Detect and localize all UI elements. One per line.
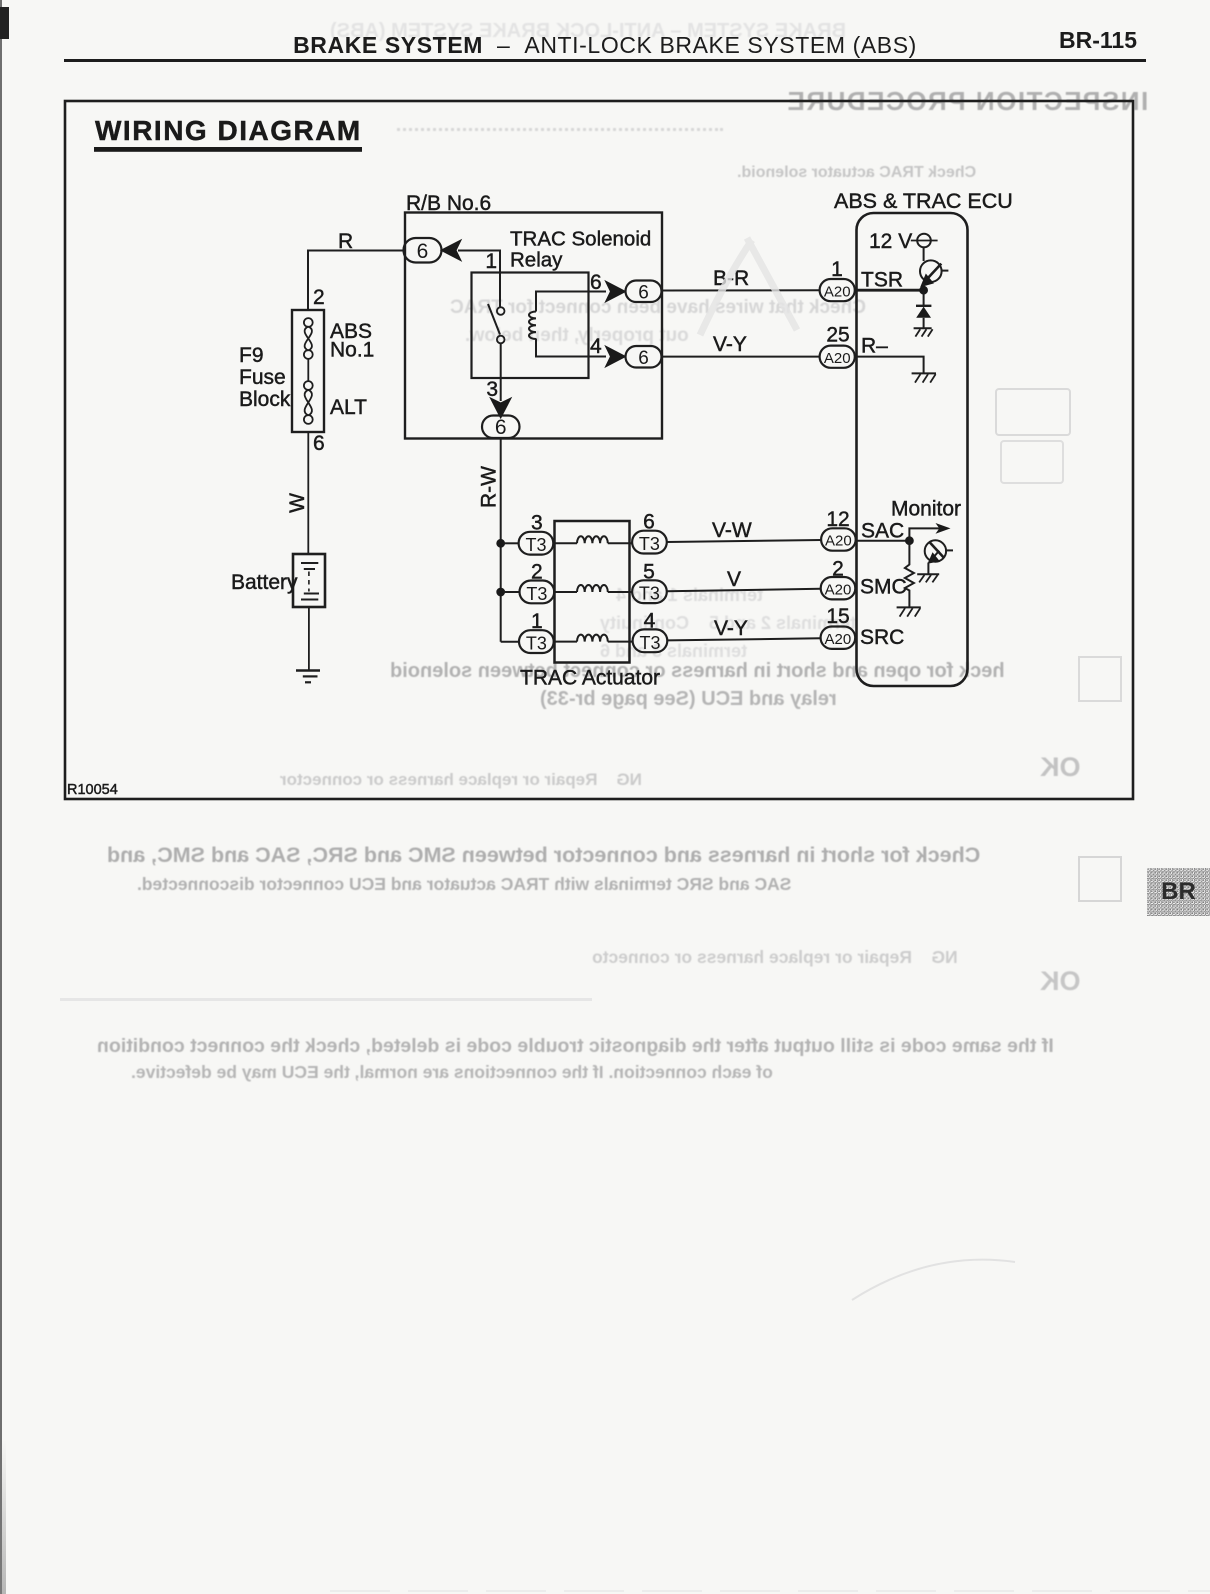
- wire stub row1: [503, 542, 519, 544]
- svg-text:V-W: V-W: [712, 519, 752, 542]
- svg-text:A20: A20: [825, 631, 852, 648]
- svg-text:A20: A20: [824, 350, 851, 367]
- connector T3 left row1: [519, 532, 554, 555]
- arrow to connector 6 lower right: [607, 347, 625, 366]
- svg-text:6: 6: [590, 271, 602, 294]
- label TSR: [861, 269, 903, 292]
- svg-text:6: 6: [638, 283, 649, 304]
- pin 15 label: [826, 605, 849, 628]
- svg-text:Monitor: Monitor: [891, 498, 961, 521]
- ECU box: [857, 213, 968, 686]
- arrow into connector 6: [442, 241, 460, 260]
- ground (battery): [296, 671, 320, 683]
- label R-: [861, 335, 888, 358]
- svg-text:6: 6: [417, 240, 429, 263]
- title WIRING DIAGRAM: [95, 115, 362, 151]
- label TRAC Actuator: [520, 667, 660, 690]
- relay inner box: [472, 273, 589, 379]
- diode D1: [916, 290, 931, 327]
- transistor Q1 emitter arrow: [922, 275, 932, 285]
- label Battery: [231, 571, 298, 594]
- connector T3 left row2: [520, 581, 555, 604]
- svg-text:SRC: SRC: [860, 626, 904, 649]
- svg-text:T3: T3: [639, 534, 660, 554]
- transistor Q2 emitter arrow: [929, 554, 938, 562]
- svg-text:6: 6: [643, 511, 655, 534]
- svg-text:V-Y: V-Y: [714, 617, 748, 640]
- connector T3 right row3: [633, 629, 668, 652]
- solenoid coil row2: [554, 585, 632, 592]
- svg-text:2: 2: [313, 286, 325, 309]
- fuse ALT: [304, 381, 313, 424]
- wire V-W row1: [667, 540, 821, 542]
- pin 2 label (fuse block): [313, 286, 325, 309]
- pin 4 label: [644, 610, 656, 633]
- svg-text:25: 25: [826, 324, 849, 347]
- ground (R-): [912, 373, 936, 382]
- transistor Q2: [925, 540, 953, 561]
- wire SAC internal: [857, 540, 910, 542]
- label SRC: [860, 626, 904, 649]
- connector A20 row2: [821, 577, 856, 599]
- TRAC actuator box: [555, 521, 630, 663]
- svg-text:R-W: R-W: [478, 466, 501, 508]
- svg-text:V: V: [727, 568, 741, 591]
- TRAC Solenoid Relay label: [510, 228, 651, 272]
- resistor R1: [905, 541, 914, 607]
- pin 6 label (fuse block): [313, 432, 325, 455]
- wire V row2: [667, 589, 821, 592]
- svg-text:TRAC Actuator: TRAC Actuator: [520, 667, 660, 690]
- connector A20 row3: [821, 627, 856, 649]
- svg-text:1: 1: [485, 250, 497, 273]
- ground (resistor): [897, 607, 921, 616]
- svg-text:T3: T3: [526, 584, 547, 604]
- pin 6 label: [643, 511, 655, 534]
- wire TSR: [855, 289, 924, 292]
- faint scratch mark: [852, 1260, 1015, 1300]
- connector A20 TSR: [820, 279, 855, 301]
- svg-text:ABS & TRAC ECU: ABS & TRAC ECU: [834, 189, 1013, 213]
- svg-text:WIRING DIAGRAM: WIRING DIAGRAM: [95, 115, 362, 146]
- svg-text:No.1: No.1: [330, 339, 374, 362]
- wire corner row3: [501, 641, 519, 643]
- pin 12 label: [826, 508, 849, 531]
- figure number R10054: [67, 782, 118, 798]
- svg-text:12 V: 12 V: [869, 230, 912, 253]
- connector A20 R-: [820, 346, 855, 368]
- pin 2 label: [531, 560, 543, 583]
- label V: [727, 568, 741, 591]
- transistor Q1: [920, 260, 948, 282]
- fuse ABS No.1: [304, 318, 313, 359]
- svg-text:Block: Block: [239, 388, 291, 411]
- svg-text:Battery: Battery: [231, 571, 298, 594]
- pin 6 label (relay): [590, 271, 602, 294]
- diagram frame: [65, 101, 1133, 799]
- connector T3 right row1: [632, 531, 667, 554]
- svg-text:R10054: R10054: [67, 782, 118, 798]
- svg-text:6: 6: [638, 348, 649, 369]
- monitor arrow: [909, 523, 950, 541]
- scan edge line: [0, 0, 2, 1594]
- label SMC: [860, 576, 907, 599]
- label V-Y (upper): [713, 333, 747, 356]
- wire R- to ground: [855, 357, 924, 373]
- wire: connector 6 to relay pin 1: [458, 251, 500, 274]
- svg-text:Relay: Relay: [510, 249, 563, 272]
- svg-text:SMC: SMC: [860, 576, 907, 599]
- wire Q2 emitter to ground: [927, 563, 929, 574]
- power terminal circle: [911, 234, 938, 248]
- page header: [0, 32, 1210, 59]
- svg-text:Fuse: Fuse: [239, 366, 286, 389]
- connector A20 row1: [821, 528, 856, 550]
- wire relay pin3 down: [500, 378, 502, 401]
- svg-text:6: 6: [313, 432, 325, 455]
- wire R: fuse block to relay block: [308, 251, 404, 311]
- bottom scan edge: [330, 1590, 1210, 1592]
- label ABS & TRAC ECU: [834, 189, 1013, 213]
- svg-text:F9: F9: [239, 344, 264, 367]
- wire battery to ground: [308, 607, 310, 671]
- svg-text:15: 15: [826, 605, 849, 628]
- ghost bleed-through layer: [330, 20, 846, 43]
- svg-text:W: W: [286, 493, 309, 513]
- label ALT: [330, 396, 367, 419]
- faint bleed mark: [700, 238, 797, 335]
- label B-R: [713, 267, 749, 290]
- wire stub row2: [503, 591, 520, 593]
- relay coil: [529, 292, 606, 357]
- wire B-R: [662, 289, 820, 291]
- svg-text:2: 2: [531, 560, 543, 583]
- ground (diode): [914, 328, 933, 336]
- wire W: fuse block to battery: [307, 432, 309, 554]
- svg-text:3: 3: [531, 512, 543, 535]
- label SAC: [861, 520, 904, 543]
- label ABS No.1: [330, 320, 374, 362]
- label 12 V: [869, 230, 912, 253]
- arrow to connector 6 upper right: [607, 282, 625, 301]
- connector 6 (relay block left): [404, 238, 442, 263]
- solenoid coil row3: [554, 635, 633, 642]
- node junction TSR: [920, 287, 927, 294]
- label V-Y: [714, 617, 748, 640]
- svg-text:4: 4: [590, 335, 602, 358]
- BR chapter tab: [1147, 868, 1210, 916]
- wire emitter to junction: [923, 284, 925, 291]
- label Monitor: [891, 498, 961, 521]
- label R-W (rotated): [478, 466, 501, 508]
- label V-W: [712, 519, 752, 542]
- arrow down to connector 6 bottom: [491, 399, 510, 417]
- svg-text:A20: A20: [825, 533, 852, 550]
- wire V-Y row3: [667, 638, 820, 640]
- node junction row2: [497, 589, 504, 596]
- svg-text:TRAC Solenoid: TRAC Solenoid: [510, 228, 651, 251]
- label R/B No.6: [406, 192, 491, 215]
- pin 4 label (relay): [590, 335, 602, 358]
- svg-text:ALT: ALT: [330, 396, 367, 419]
- label W (rotated): [286, 493, 309, 513]
- svg-text:R: R: [338, 230, 353, 253]
- svg-text:4: 4: [644, 610, 656, 633]
- label F9 Fuse Block: [239, 344, 291, 411]
- label R: [338, 230, 353, 253]
- pin 5 label: [643, 560, 655, 583]
- connector 6 (relay block bottom): [482, 416, 520, 440]
- connector T3 left row3: [519, 630, 554, 653]
- svg-text:1: 1: [531, 610, 543, 633]
- ground (Q2): [917, 574, 939, 582]
- pin 2 label (A20): [832, 558, 844, 581]
- pin 1 label: [531, 610, 543, 633]
- svg-text:R–: R–: [861, 335, 888, 358]
- wire 12V to transistor: [923, 247, 925, 261]
- svg-text:A20: A20: [824, 283, 851, 300]
- svg-text:3: 3: [486, 378, 498, 401]
- pin 1 label: [485, 250, 497, 273]
- svg-text:1: 1: [831, 258, 843, 281]
- wire R-W vertical: [500, 438, 502, 642]
- relay switch: [488, 273, 505, 378]
- connector 6 (relay block upper right): [626, 281, 662, 304]
- svg-text:V-Y: V-Y: [713, 333, 747, 356]
- svg-text:T3: T3: [639, 584, 660, 604]
- connector T3 right row2: [632, 580, 667, 603]
- svg-text:5: 5: [643, 560, 655, 583]
- svg-text:6: 6: [495, 416, 507, 439]
- svg-text:T3: T3: [526, 634, 547, 654]
- pin 1 label (A20): [831, 258, 843, 281]
- scan edge mark: [0, 7, 9, 39]
- svg-text:TSR: TSR: [861, 269, 903, 292]
- wire V-Y (relay to A20): [662, 356, 820, 358]
- node junction row1: [497, 540, 504, 547]
- pin 3 label: [531, 512, 543, 535]
- pin 25 label: [826, 324, 849, 347]
- connector 6 (relay block lower right): [626, 346, 662, 369]
- svg-text:T3: T3: [639, 633, 660, 653]
- wire between fuses: [307, 359, 309, 381]
- node junction SAC: [906, 537, 913, 544]
- relay block R/B No.6 box: [405, 213, 662, 439]
- solenoid coil row1: [553, 536, 632, 543]
- svg-text:A20: A20: [825, 581, 852, 598]
- svg-text:T3: T3: [525, 535, 546, 555]
- battery: [293, 554, 325, 607]
- F9 fuse block box: [292, 310, 324, 432]
- pin 3 label (relay): [486, 378, 498, 401]
- svg-text:SAC: SAC: [861, 520, 904, 543]
